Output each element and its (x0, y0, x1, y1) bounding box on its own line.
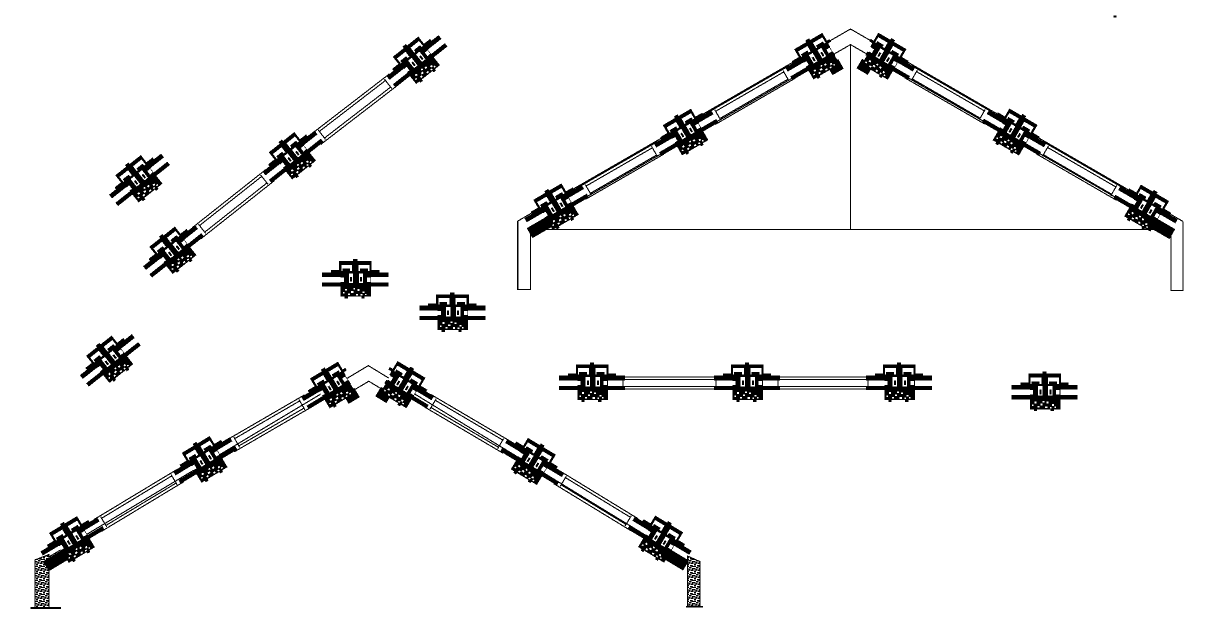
ground line G1 (31, 607, 62, 609)
connector K5 (72, 324, 148, 396)
connector K12 (854, 29, 922, 93)
connector K19 (494, 428, 571, 496)
connector K15 (295, 358, 363, 422)
truss left leg (518, 221, 531, 290)
connector K16 (166, 426, 243, 494)
connector K14 (1107, 174, 1186, 243)
truss bottom chord (530, 228, 1171, 230)
connector K13 (976, 98, 1053, 165)
connector K4 (101, 143, 177, 215)
connector K10 (647, 99, 724, 166)
truss inner chevron (530, 45, 1171, 230)
connector K18 (373, 358, 441, 423)
post P2 (hatched) (687, 556, 699, 606)
connector K6 (322, 259, 388, 298)
tube T1 (K1-K2) (192, 170, 274, 239)
tube T10 (K19-K20) (554, 472, 638, 531)
connector K1 (135, 215, 211, 287)
connector K22 (714, 362, 780, 401)
connector K20 (621, 505, 700, 574)
post P1 (hatched) (35, 555, 49, 608)
connector K9 (779, 30, 846, 94)
tube T8 (K16-K17) (94, 470, 183, 532)
connector K11 (515, 173, 595, 242)
dash mark (1114, 16, 1117, 18)
truss outer chevron (top-right) (518, 29, 1183, 221)
ground line G2 (686, 606, 703, 608)
tube T7 (K15-K16) (227, 395, 311, 452)
connector K7 (419, 292, 485, 331)
truss right leg (1171, 221, 1183, 290)
connector K8 (1012, 372, 1078, 411)
gable outer chevron (bottom-left) (49, 366, 688, 562)
connector K23 (866, 362, 932, 401)
connector K3 (378, 25, 454, 97)
gable inner chevron (apex only) (330, 381, 408, 405)
connector K17 (31, 506, 111, 575)
tube T12 (K22-K23) (777, 377, 870, 389)
connector K2 (254, 120, 330, 192)
connector K21 (559, 362, 625, 401)
tube T9 (K18-K19) (424, 394, 511, 453)
tube T6 (K13-K14) (1036, 142, 1123, 201)
tube T5 (K12-K13) (905, 66, 992, 124)
tube T4 (K10-K11) (579, 142, 664, 199)
tube T11 (K21-K22) (622, 377, 718, 389)
tube T2 (K2-K3) (312, 74, 398, 145)
truss centre post line (850, 45, 852, 230)
tube T3 (K9-K10) (708, 66, 795, 124)
